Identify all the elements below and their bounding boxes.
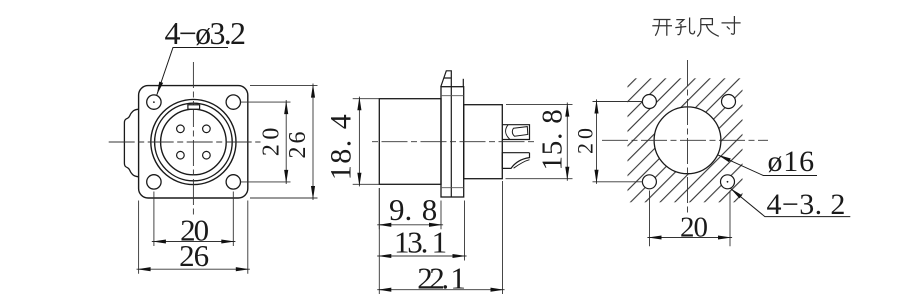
vertical centerline right view — [687, 60, 689, 216]
leader ø16 — [718, 155, 817, 176]
pin 3 — [177, 151, 185, 159]
vertical centerline left view — [192, 62, 194, 215]
lower solder cup contact — [502, 153, 529, 169]
mounting hole bottom-right — [226, 175, 240, 189]
corner hole top-left — [642, 95, 656, 109]
upper solder cup contact — [502, 125, 529, 140]
mounting hole top-right — [226, 95, 240, 109]
mounting hole bottom-left — [147, 175, 161, 189]
dim 20 bottom of right view — [650, 191, 731, 247]
key tab rear tick — [462, 79, 464, 87]
pin 2 — [203, 125, 211, 133]
flange square — [139, 86, 248, 198]
svg-text:20: 20 — [573, 124, 598, 154]
svg-text:20: 20 — [259, 123, 285, 156]
svg-text:26: 26 — [285, 129, 311, 159]
char 开 — [652, 20, 672, 36]
char 尺 — [697, 19, 719, 37]
connector shell second circle — [155, 103, 233, 181]
corner hole top-right — [722, 95, 736, 109]
svg-text:ø16: ø16 — [768, 145, 815, 178]
flange plate — [441, 87, 464, 197]
svg-text:13. 1: 13. 1 — [394, 225, 446, 260]
connector shell outer circle — [151, 99, 236, 184]
pin 4 — [203, 151, 211, 159]
dim 26 right of left view — [250, 86, 318, 198]
corner hole bottom-right — [721, 175, 735, 189]
key tab on flange top — [441, 71, 452, 87]
flange middle line — [450, 87, 452, 197]
flange chamfer line bottom — [441, 187, 464, 189]
dim 20 bottom of left view — [154, 192, 233, 247]
svg-text:18. 4: 18. 4 — [325, 113, 358, 181]
corner hole bottom-left — [642, 175, 656, 189]
leader 4-3.2 — [730, 188, 850, 216]
svg-text:4−3. 2: 4−3. 2 — [767, 188, 846, 221]
hatched panel — [628, 78, 743, 202]
pin 1 — [177, 125, 185, 133]
svg-text:15. 8: 15. 8 — [537, 109, 569, 171]
mounting hole top-left — [147, 95, 161, 109]
insert inner circle — [161, 109, 227, 175]
dim 20 right of left view — [241, 102, 291, 182]
title 开孔尺寸 — [652, 16, 740, 37]
dim 22.1 — [379, 181, 502, 294]
svg-text:4−ø3.2: 4−ø3.2 — [165, 15, 246, 51]
svg-text:22.1: 22.1 — [417, 261, 464, 296]
char 孔 — [675, 18, 694, 35]
left side bump profile — [124, 109, 138, 177]
svg-text:9.8: 9.8 — [389, 192, 437, 227]
horizontal centerline right view — [602, 139, 768, 141]
panel hole big circle ø16 — [654, 107, 721, 174]
svg-text:20: 20 — [680, 212, 708, 244]
flange chamfer line top — [441, 95, 464, 97]
key slot rectangle — [188, 105, 200, 109]
char 寸 — [722, 16, 741, 34]
main body rectangle — [379, 99, 441, 185]
key slot shading — [187, 104, 201, 105]
label 4-ø3.2 leader — [157, 48, 228, 96]
dim 26 bottom of left view — [139, 201, 248, 274]
dim 13.1 — [464, 201, 466, 261]
horizontal centerline left view — [109, 141, 261, 143]
svg-text:26: 26 — [179, 238, 209, 273]
centerline middle view — [372, 141, 536, 143]
dim 18.4 left of middle view — [353, 99, 380, 185]
rear insulator — [464, 105, 503, 179]
dim 15.8 right of middle view — [506, 105, 573, 179]
dim 9.8 — [379, 188, 441, 229]
dim 20 left of right view — [593, 102, 644, 182]
